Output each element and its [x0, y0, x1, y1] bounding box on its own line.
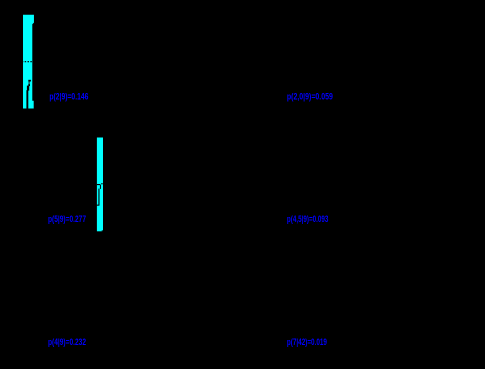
curve dash upper right, panel row2 col1 — [101, 183, 103, 184]
curve step segment b, panel row1 col1 — [27, 86, 29, 91]
curve dash lower, panel row2 col1 — [97, 205, 100, 206]
svg-text:p(5|9)=0.277: p(5|9)=0.277 — [48, 214, 86, 224]
curve vertical step 2, panel row2 col1 — [98, 189, 99, 206]
dark teal curve segment, panel row1 col1 — [28, 82, 30, 85]
histogram bar, panel row2 col1 — [97, 138, 103, 232]
curve step segment a, panel row1 col1 — [28, 84, 30, 86]
dotted marker line, panel row1 col1 — [22, 61, 33, 63]
svg-text:p(2,0|9)=0.059: p(2,0|9)=0.059 — [287, 91, 333, 101]
bar corner notch, panel row2 col1 — [102, 230, 103, 231]
svg-text:p(4,5|9)=0.093: p(4,5|9)=0.093 — [287, 214, 329, 224]
curve vertical step 1, panel row2 col1 — [100, 185, 101, 189]
curve cap segment, panel row1 col1 — [28, 80, 31, 82]
svg-text:p(4|9)=0.232: p(4|9)=0.232 — [48, 337, 86, 347]
svg-text:p(2|9)=0.146: p(2|9)=0.146 — [49, 91, 88, 101]
curve dash upper left, panel row2 col1 — [97, 184, 101, 185]
svg-text:p(7|42)=0.019: p(7|42)=0.019 — [287, 337, 327, 347]
curve vertical segment, panel row1 col1 — [26, 90, 28, 108]
histogram bar, panel row1 col1 — [23, 15, 34, 109]
